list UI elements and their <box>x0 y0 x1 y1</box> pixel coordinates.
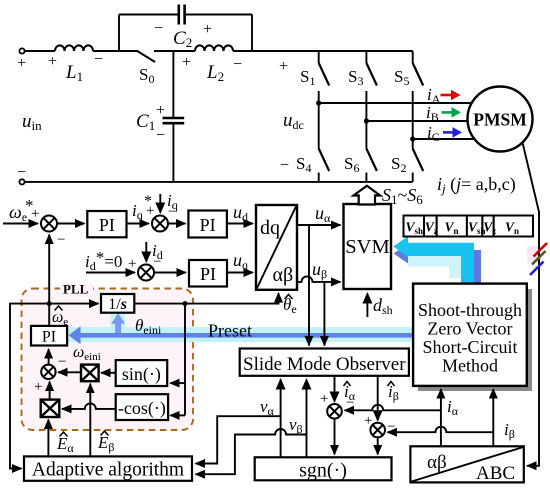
wire sumE to sgn <box>334 419 336 455</box>
svg-text:+: + <box>17 55 26 72</box>
adaptive algorithm box <box>24 456 192 480</box>
current iC arrow <box>443 131 454 134</box>
wire C2 loop top left <box>119 14 178 16</box>
wire L1 to S0 <box>93 50 137 52</box>
svg-text:−: − <box>280 157 289 174</box>
multiplier M2 <box>41 400 60 417</box>
leg B mid <box>365 91 367 149</box>
-cos block <box>116 394 168 420</box>
wire sum3 to PI3 <box>154 272 186 274</box>
PI controller PLL <box>31 326 67 346</box>
wire sum2 to PI2 <box>168 223 186 225</box>
dsh input arrow <box>366 294 368 318</box>
SVM block <box>344 204 392 289</box>
PLL dashed region fill <box>22 289 194 431</box>
leg B lower stub <box>365 173 367 182</box>
wire i-beta into sumF with hop <box>388 427 494 432</box>
wire i-alpha up to shoot-through <box>440 389 442 446</box>
current iB arrow <box>442 111 453 114</box>
node on 1/s output <box>183 301 188 306</box>
svg-text:Preset: Preset <box>208 321 252 341</box>
svg-text:SVM: SVM <box>345 236 389 258</box>
PI controller PI2 <box>188 211 227 238</box>
integrator 1/s <box>101 294 134 313</box>
switch S1 blade <box>319 63 330 86</box>
wire C1 top <box>172 51 174 117</box>
node phase A <box>316 100 321 105</box>
SVM cyan arrow top layer <box>393 236 474 284</box>
summing junction PLL <box>41 365 55 379</box>
switch S3 blade <box>366 63 377 86</box>
svg-text:+: + <box>203 21 212 38</box>
wire u-beta branch down to SMO <box>323 282 325 346</box>
svg-text:PMSM: PMSM <box>473 110 527 130</box>
switch S6 blade <box>366 149 377 172</box>
wire speed feedback up to sum1 <box>48 235 50 304</box>
summing junction E-alpha <box>327 404 342 419</box>
svg-text:−: − <box>154 20 163 37</box>
wire v-beta to SMO <box>306 380 308 458</box>
wire C2 loop left riser <box>118 15 120 52</box>
wire uq to dq <box>227 272 253 274</box>
wire u-alpha to SVM <box>297 224 341 226</box>
sgn block <box>255 457 392 480</box>
input terminal bottom <box>19 179 24 184</box>
wire C2 loop right riser <box>251 15 253 52</box>
switch S4 blade <box>319 149 330 172</box>
wire omega to adaptive algorithm <box>10 304 49 469</box>
wire v-alpha to SMO <box>280 380 282 458</box>
wire feed to sin <box>170 382 185 384</box>
wire M2 to sumPLL <box>49 382 51 400</box>
leg C mid <box>412 91 414 149</box>
leg A mid <box>318 91 320 149</box>
inductor L1 <box>55 45 93 51</box>
S1~S6 hollow arrow <box>354 186 381 205</box>
id feedback arrow <box>145 242 147 262</box>
phase B wire <box>366 120 467 122</box>
svg-text:PLL: PLL <box>63 282 89 297</box>
wire -cos to M2 with hop <box>62 403 116 408</box>
svg-text:ABC: ABC <box>476 463 515 484</box>
svg-text:+: + <box>146 203 154 219</box>
inductor L2 <box>195 45 233 51</box>
svg-text:dq: dq <box>260 217 280 239</box>
summing junction iq <box>152 216 168 232</box>
PI controller PI3 <box>189 260 227 287</box>
wire M1 to sumPLL <box>58 371 81 373</box>
node phase B <box>364 118 369 123</box>
svg-text:−: − <box>168 204 176 220</box>
svg-text:−: − <box>57 232 65 248</box>
iq feedback arrow <box>159 194 161 213</box>
svg-text:−: − <box>233 56 242 73</box>
svg-text:PI: PI <box>99 215 115 235</box>
phase A wire <box>319 102 471 104</box>
SVM cyan arrow pale layer <box>408 249 474 278</box>
svg-text:−: − <box>153 254 161 270</box>
capacitor C1 plates <box>163 118 185 123</box>
wire PMSM to ABC <box>523 143 540 466</box>
svg-text:PI: PI <box>200 264 216 284</box>
wire C2 loop top right <box>186 14 252 16</box>
svg-text:αβ: αβ <box>273 264 294 286</box>
PI controller PI1 <box>87 211 126 237</box>
shoot-through box shadow <box>418 289 532 391</box>
svg-text:Slide Mode Observer: Slide Mode Observer <box>243 354 406 375</box>
wire E-beta up to M1 with hop <box>89 384 91 457</box>
leg A upper stub <box>318 51 320 63</box>
svg-text:+: + <box>48 53 57 70</box>
transform block dq/ab <box>256 205 297 290</box>
svg-text:-cos(·): -cos(·) <box>118 398 166 419</box>
wire S0 to L2 <box>154 50 195 52</box>
svg-text:+: + <box>364 413 372 429</box>
wire PI top to node <box>48 304 50 326</box>
svg-text:sin(·): sin(·) <box>122 364 161 385</box>
PLL label bg <box>60 283 93 294</box>
sin block <box>116 360 168 386</box>
PLL dashed border <box>22 289 194 431</box>
svg-text:Zero Vector: Zero Vector <box>427 319 512 339</box>
wire i-beta up to shoot-through <box>492 389 494 446</box>
wire 1/s feed to sin cos <box>184 304 186 416</box>
wire omega to 1/s <box>49 303 98 305</box>
svg-text:+: + <box>128 256 136 272</box>
svg-text:+: + <box>182 54 191 71</box>
pink patch behind phase hatches <box>527 246 539 262</box>
wire id*=0 input <box>86 272 135 274</box>
motor PMSM <box>468 87 533 152</box>
svg-text:αβ: αβ <box>427 452 447 473</box>
summing junction E-beta <box>370 423 385 438</box>
switch S0 blade <box>137 51 156 63</box>
Preset arrowhead <box>69 326 81 344</box>
wire PI1 to sum2 <box>127 223 150 225</box>
wire we* input <box>3 223 38 225</box>
wire v-beta branch to adaptive with hop <box>196 429 307 474</box>
wire E-alpha up to M2 <box>47 420 49 457</box>
node omega-e <box>47 301 52 306</box>
svg-text:−: − <box>387 419 395 435</box>
svg-text:+: + <box>156 102 165 119</box>
wire sumF to sgn <box>377 437 379 454</box>
wire i-alpha-hat to sumE <box>334 376 336 402</box>
phase hatch blue <box>530 262 544 276</box>
svg-text:−: − <box>58 354 66 370</box>
summing junction speed <box>41 216 57 232</box>
vector sequence table <box>404 216 534 237</box>
wire u-alpha branch down to SMO <box>308 225 310 346</box>
svg-text:+: + <box>320 391 328 407</box>
table cell labels <box>406 220 520 237</box>
svg-text:Method: Method <box>442 356 498 376</box>
Preset blue band halo <box>66 327 413 342</box>
svg-text:ij (j= a,b,c): ij (j= a,b,c) <box>437 174 516 196</box>
leg A lower stub <box>318 173 320 182</box>
Preset core line <box>78 333 413 338</box>
wire bottom rail <box>25 181 413 183</box>
switch S2 blade <box>413 149 424 172</box>
wire sin to M1 <box>101 372 116 374</box>
multiplier M1 <box>81 365 99 382</box>
input terminal top <box>19 48 24 53</box>
summing junction id <box>138 265 154 281</box>
svg-text:+: + <box>279 58 288 75</box>
leg C lower stub <box>412 173 414 182</box>
phase C wire <box>413 138 474 140</box>
capacitor C2 plates <box>179 5 185 25</box>
Preset vertical branch arrow <box>115 322 121 337</box>
leg C upper stub <box>412 51 414 63</box>
wire u-beta to SVM with hop <box>297 276 341 281</box>
switch S5 blade <box>413 63 424 86</box>
wire v-alpha branch to adaptive <box>196 416 281 463</box>
wire top rail <box>233 50 413 52</box>
current iA arrow <box>441 94 453 97</box>
wire input to L1 <box>25 50 55 52</box>
wire i-alpha into sumE with hop <box>345 405 441 411</box>
svg-text:Shoot-through: Shoot-through <box>418 300 522 320</box>
svg-text:−: − <box>156 127 165 144</box>
Preset vertical branch halo <box>111 313 126 335</box>
shoot-through method box <box>413 284 527 386</box>
svg-text:1/s: 1/s <box>108 296 127 313</box>
svg-text:−: − <box>17 164 26 181</box>
svg-text:PI: PI <box>42 329 56 346</box>
svg-text:PI: PI <box>200 215 216 235</box>
node phase C <box>410 136 415 141</box>
svg-text:+: + <box>31 206 39 222</box>
svg-text:sgn(·): sgn(·) <box>299 460 347 482</box>
wire to PI1 <box>57 223 85 225</box>
slide mode observer box <box>240 349 409 376</box>
wire feed to -cos <box>170 414 185 416</box>
wire i-beta-hat to sumF <box>377 376 379 420</box>
wire C1 bottom <box>172 124 174 181</box>
svg-text:+: + <box>34 379 42 395</box>
inverter legs <box>319 51 474 182</box>
SVM cyan arrow blue layer <box>394 244 481 285</box>
leg B upper stub <box>365 51 367 63</box>
theta input arrow to dq <box>134 293 278 304</box>
svg-text:−: − <box>346 395 354 411</box>
transform block ab/ABC <box>410 446 523 484</box>
svg-text:Short-Circuit: Short-Circuit <box>423 337 518 357</box>
svg-text:−: − <box>94 51 103 68</box>
wire sumPLL to PI <box>48 349 50 364</box>
phase hatch green <box>532 251 546 265</box>
wire ud to dq <box>227 223 253 225</box>
svg-text:Adaptive algorithm: Adaptive algorithm <box>32 460 184 481</box>
phase hatch red <box>534 243 548 257</box>
